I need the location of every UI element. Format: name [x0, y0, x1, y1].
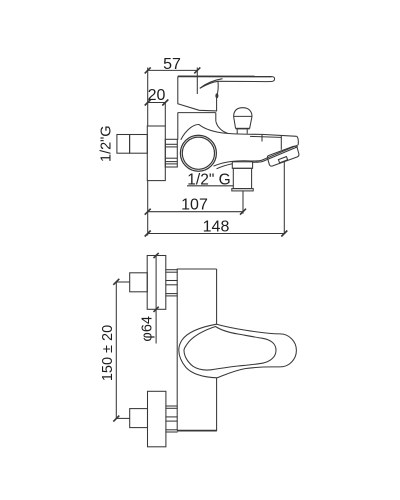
body front view [177, 269, 216, 431]
svg-text:148: 148 [203, 219, 230, 236]
knob sides [234, 116, 252, 128]
wrist sliver upper edge [200, 79, 223, 89]
dimension 20 line [145, 100, 169, 106]
knob base [236, 128, 250, 130]
body right face [297, 136, 299, 145]
phi64 tick bottom [154, 307, 159, 312]
crease line at top bend [261, 135, 263, 142]
svg-text:1/2" G: 1/2" G [187, 171, 230, 188]
inlet connector [130, 135, 148, 154]
collar left edge [177, 113, 179, 140]
union nut circle [180, 135, 216, 171]
body right shoulder curve [216, 121, 228, 133]
aerator inner rect [278, 157, 287, 163]
lower threads [165, 406, 177, 432]
dimension 107 line [145, 209, 246, 215]
handle outer outline (front view) [179, 324, 297, 378]
extension line below flange [147, 181, 149, 236]
crease line [280, 136, 282, 150]
extension line 20 right [164, 103, 166, 127]
threads between flange and union [165, 139, 177, 167]
svg-text:150 ± 20: 150 ± 20 [100, 325, 116, 381]
upper threads [165, 270, 177, 296]
shower outlet flange [232, 189, 253, 191]
wall flange (side view) [147, 126, 165, 181]
knob band [234, 115, 252, 117]
lever blade tip [267, 77, 275, 82]
lower wall flange [148, 391, 166, 447]
upper wall flange [147, 256, 166, 310]
spout lower chamfer inner [252, 147, 298, 163]
lower inlet nut [130, 409, 148, 428]
lever blade underside [218, 80, 267, 82]
body bottom edge second line [217, 162, 253, 169]
body bottom edge to union [214, 161, 253, 166]
top edge second line [250, 136, 281, 137]
svg-text:1/2"G: 1/2"G [99, 125, 115, 162]
pivot dot [215, 93, 218, 98]
extension line 57 right (upper part) [196, 68, 198, 77]
svg-text:φ64: φ64 [140, 316, 156, 342]
phi64 dimension line [155, 255, 157, 344]
lower supply stub [116, 417, 129, 419]
cartridge collar [178, 112, 216, 114]
shower outlet body [233, 168, 251, 188]
dimension 148 line [145, 231, 288, 237]
aerator housing tilted box [267, 146, 299, 166]
svg-text:107: 107 [181, 197, 208, 214]
knob stem [237, 129, 247, 133]
extension line 107 right [242, 191, 244, 214]
base right curve to pivot [217, 81, 218, 95]
dimension 150±20 line [113, 279, 119, 422]
upper supply stub [116, 281, 129, 283]
dimension 57 line [145, 67, 201, 73]
wrist sliver lower edge [200, 81, 218, 88]
diverter knob dome [234, 108, 252, 117]
union nut inner circle [182, 137, 214, 169]
svg-text:57: 57 [163, 56, 181, 73]
svg-text:20: 20 [148, 87, 166, 104]
body bottom edge heavy [177, 430, 216, 432]
shower outlet collar [232, 162, 252, 169]
upper inlet nut [130, 273, 148, 292]
body neck curve [181, 124, 297, 139]
handle inner outline [184, 327, 276, 371]
inlet nut [117, 135, 130, 154]
extension line 148 right [283, 162, 285, 234]
phi64 tick top [154, 253, 159, 258]
collar right edge [215, 113, 217, 122]
handle base left edge [178, 76, 217, 111]
spout lower chamfer outer [252, 145, 298, 161]
label 1/2" G leader line [187, 185, 233, 187]
extension line left wall [147, 68, 149, 127]
handle base [178, 76, 217, 111]
lever blade top edge [178, 75, 272, 77]
extension line 57 right (through handle) [196, 76, 198, 94]
